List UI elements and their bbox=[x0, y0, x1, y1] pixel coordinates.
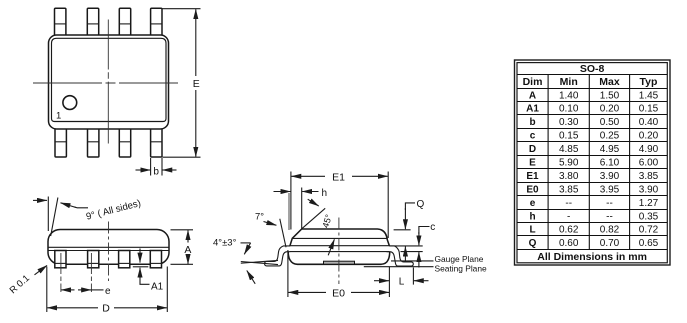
svg-text:1.40: 1.40 bbox=[559, 90, 579, 101]
svg-text:0.60: 0.60 bbox=[559, 238, 579, 249]
svg-text:6.10: 6.10 bbox=[600, 158, 620, 169]
svg-text:3.95: 3.95 bbox=[600, 184, 620, 195]
dimension E0: dimension line with arrows bbox=[288, 291, 326, 293]
dimension h: extension line bbox=[301, 188, 303, 230]
svg-text:e: e bbox=[530, 198, 536, 209]
table grid lines bbox=[517, 74, 667, 76]
end view: right gull-wing lead bbox=[387, 246, 414, 266]
svg-text:1.45: 1.45 bbox=[639, 90, 659, 101]
dimension E1: extension lines bbox=[290, 172, 292, 230]
svg-text:0.50: 0.50 bbox=[600, 117, 620, 128]
end view: chamfer bottom line bbox=[292, 237, 386, 239]
svg-text:D: D bbox=[529, 144, 536, 155]
svg-text:6.00: 6.00 bbox=[639, 158, 659, 169]
top view: pin 4 bbox=[151, 127, 162, 157]
top view: pin 3 bbox=[119, 127, 130, 157]
gauge plane line bbox=[391, 260, 434, 262]
9 degree draft indicator: left arrow bbox=[33, 199, 47, 201]
svg-text:3.90: 3.90 bbox=[639, 184, 659, 195]
svg-text:Max: Max bbox=[599, 76, 620, 88]
svg-text:E: E bbox=[529, 158, 536, 169]
dimension E1: dimension line with arrows bbox=[291, 175, 325, 177]
foot angle lower arrow bbox=[247, 271, 255, 284]
svg-text:0.35: 0.35 bbox=[639, 211, 659, 222]
table inner border bbox=[517, 63, 667, 263]
svg-text:c: c bbox=[530, 131, 536, 142]
svg-text:0.20: 0.20 bbox=[600, 104, 620, 115]
svg-text:--: -- bbox=[606, 211, 613, 222]
svg-text:0.25: 0.25 bbox=[600, 131, 620, 142]
top view: pin 2 bbox=[88, 127, 99, 157]
svg-text:h: h bbox=[529, 211, 535, 222]
svg-text:4.85: 4.85 bbox=[559, 144, 579, 155]
top view: body inner outline bbox=[52, 38, 167, 121]
dimension L: extension lines bbox=[388, 267, 390, 298]
dimension A1: upper arrow bbox=[139, 249, 141, 263]
svg-text:1.50: 1.50 bbox=[600, 90, 620, 101]
end view: left gull-wing lead bbox=[265, 246, 291, 266]
dimension b: extension lines bbox=[150, 158, 152, 176]
dimension e: extension lines through leads bbox=[60, 253, 62, 292]
dimension c: lead-bottom tick bbox=[401, 251, 423, 253]
top view: horizontal centerline bbox=[33, 82, 178, 84]
dimension D: dimension line with arrows bbox=[47, 307, 98, 309]
dimension D: extension lines bbox=[46, 267, 48, 313]
svg-text:0.20: 0.20 bbox=[639, 131, 659, 142]
side view: lead 1 bbox=[55, 251, 66, 268]
9 degree draft indicator: vertical reference line bbox=[47, 197, 49, 232]
svg-text:E0: E0 bbox=[526, 184, 539, 195]
svg-text:0.15: 0.15 bbox=[639, 104, 659, 115]
svg-text:SO-8: SO-8 bbox=[580, 63, 605, 75]
svg-text:3.85: 3.85 bbox=[639, 171, 659, 182]
svg-text:E1: E1 bbox=[526, 171, 539, 182]
svg-text:-: - bbox=[567, 211, 570, 222]
svg-text:A1: A1 bbox=[526, 104, 539, 115]
side view: body outline bbox=[48, 230, 169, 265]
end view: lower body outline bbox=[288, 252, 390, 265]
top view: body outer outline bbox=[49, 35, 169, 129]
end view: vertical dash-dot centerline bbox=[338, 218, 340, 285]
svg-text:4.95: 4.95 bbox=[600, 144, 620, 155]
svg-text:Typ: Typ bbox=[640, 76, 658, 88]
dimension A: extension lines bbox=[171, 229, 194, 231]
svg-text:L: L bbox=[529, 225, 535, 236]
svg-text:0.40: 0.40 bbox=[639, 117, 659, 128]
svg-text:3.80: 3.80 bbox=[559, 171, 579, 182]
dimension E: extension lines bbox=[162, 8, 201, 10]
7 degree draft line bbox=[280, 219, 286, 248]
svg-text:--: -- bbox=[606, 198, 613, 209]
table outer border bbox=[515, 60, 671, 265]
45 degree lower leader arrow bbox=[328, 239, 334, 255]
svg-text:0.70: 0.70 bbox=[600, 238, 620, 249]
top view: pin 1 (bottom row, leftmost) bbox=[55, 127, 66, 157]
dimension b: arrows bbox=[136, 169, 151, 171]
end view: upper body outline bbox=[290, 229, 390, 246]
svg-text:0.15: 0.15 bbox=[559, 131, 579, 142]
dimension A1: seating tick bbox=[133, 266, 149, 268]
top view: pin 8 (top row, leftmost) bbox=[55, 8, 66, 35]
end view: band lines across body bbox=[290, 245, 390, 247]
svg-text:5.90: 5.90 bbox=[559, 158, 579, 169]
top view: pin 7 bbox=[87, 8, 98, 35]
dimension A: dimension line with arrows bbox=[187, 230, 189, 242]
lead-top tick (shared Q/c) bbox=[390, 245, 423, 247]
svg-text:3.90: 3.90 bbox=[600, 171, 620, 182]
svg-text:0.72: 0.72 bbox=[639, 225, 659, 236]
svg-text:0.65: 0.65 bbox=[639, 238, 659, 249]
side view: lead 3 bbox=[119, 251, 130, 268]
svg-text:Dim: Dim bbox=[523, 76, 543, 88]
9 degree draft indicator: right arrow with leader bbox=[61, 203, 77, 208]
dimension c: lower arrow bbox=[418, 252, 420, 267]
seating plane line bbox=[364, 266, 434, 268]
45 degree chamfer line bbox=[302, 208, 326, 229]
svg-text:0.10: 0.10 bbox=[559, 104, 579, 115]
7 degree leader arrow bbox=[264, 222, 277, 226]
R0.1 note: leader arrow bbox=[35, 265, 48, 274]
dimension E0: extension line bbox=[287, 250, 289, 297]
dimension h: arrows bbox=[274, 191, 291, 193]
side view: lead 2 bbox=[88, 251, 99, 268]
dimension A1: lower arrow and leader bbox=[139, 268, 141, 278]
dimension e: dimension line with outward arrows bbox=[61, 289, 74, 291]
top view: vertical centerline bbox=[107, 20, 109, 144]
foot angle tolerance lines bbox=[241, 260, 278, 263]
end view: exposed pad (gray) bbox=[324, 261, 355, 264]
svg-text:Q: Q bbox=[529, 238, 537, 249]
side view: lead 4 bbox=[150, 251, 161, 268]
dimension E: dimension line with arrows bbox=[195, 9, 197, 76]
svg-text:All Dimensions in mm: All Dimensions in mm bbox=[537, 251, 647, 263]
dimension Q: body-top tick bbox=[394, 229, 411, 231]
svg-text:1.27: 1.27 bbox=[639, 198, 659, 209]
svg-text:0.62: 0.62 bbox=[559, 225, 579, 236]
dimension L: arrows bbox=[374, 280, 389, 282]
top view: bottom pin shoulder lines bbox=[55, 141, 66, 143]
top view: pin 6 bbox=[119, 8, 130, 35]
side view: vertical dash-dot centerline bbox=[108, 222, 110, 282]
svg-text:0.30: 0.30 bbox=[559, 117, 579, 128]
45 degree leader arrow bbox=[308, 199, 319, 206]
svg-text:b: b bbox=[529, 117, 535, 128]
9 degree draft indicator: angled line bbox=[51, 198, 58, 237]
top view: pin-1 index circle bbox=[63, 96, 77, 110]
svg-text:0.82: 0.82 bbox=[600, 225, 620, 236]
svg-text:4.90: 4.90 bbox=[639, 144, 659, 155]
4 deg leader with arrow bbox=[241, 242, 251, 244]
svg-text:Min: Min bbox=[560, 76, 578, 88]
side view: parting band lines bbox=[49, 246, 169, 248]
dimension Q: lower arrow bbox=[404, 247, 406, 262]
svg-text:--: -- bbox=[565, 198, 572, 209]
svg-text:3.85: 3.85 bbox=[559, 184, 579, 195]
second vertical reference line at body left corner bbox=[288, 193, 290, 230]
top view: pin 5 bbox=[151, 8, 162, 35]
svg-text:A: A bbox=[529, 90, 536, 101]
